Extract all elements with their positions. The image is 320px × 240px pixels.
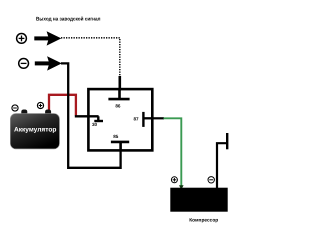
battery body <box>10 114 59 149</box>
black lead into relay pin 30 <box>75 115 99 117</box>
svg-text:Выход на заводской сигнал: Выход на заводской сигнал <box>36 16 101 22</box>
solid stub into relay pin 86 <box>119 76 122 91</box>
arrow from minus <box>35 56 62 70</box>
compressor ground wire <box>217 143 226 188</box>
battery positive terminal post <box>45 110 51 118</box>
battery minus circle <box>12 105 18 111</box>
svg-text:87: 87 <box>133 117 139 122</box>
green wire arrow tip <box>179 185 184 189</box>
compressor minus circle <box>208 177 214 183</box>
battery plus circle <box>37 102 43 108</box>
terminal bar <box>226 133 228 149</box>
svg-text:Аккумулятор: Аккумулятор <box>14 127 57 134</box>
relay box <box>88 89 152 150</box>
relay pin 85 <box>111 142 129 151</box>
battery negative terminal post <box>21 110 27 118</box>
minus wire to relay pin 85 <box>61 63 121 167</box>
black stub from pin 87 <box>152 117 164 119</box>
relay pin 86 <box>108 89 129 99</box>
dashed signal wire <box>61 38 120 77</box>
red positive wire from battery <box>49 95 76 116</box>
compressor plus circle <box>171 177 177 183</box>
compressor body <box>170 188 227 212</box>
svg-text:86: 86 <box>115 103 121 108</box>
relay pin 87 <box>143 112 152 127</box>
green wire to compressor <box>164 118 182 185</box>
arrow from plus <box>34 31 61 45</box>
svg-text:30: 30 <box>92 122 98 127</box>
svg-text:Компрессор: Компрессор <box>189 217 218 223</box>
svg-text:85: 85 <box>113 134 119 139</box>
plus source symbol <box>17 34 27 44</box>
relay pin 30 <box>94 116 103 121</box>
minus source symbol <box>19 59 29 69</box>
